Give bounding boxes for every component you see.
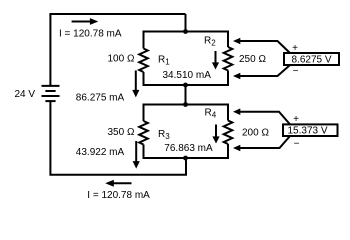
resistor R3 — [139, 121, 148, 144]
wire top rail and left vertical down to battery — [50, 14, 185, 86]
svg-text:100 Ω: 100 Ω — [108, 54, 135, 65]
wire bottom box right edge upper segment — [227, 104, 229, 121]
wire bottom box left edge lower segment — [143, 145, 145, 160]
voltmeter V1 box — [284, 53, 339, 65]
voltmeter lead V2 - (arrow to R4 bottom) — [233, 136, 290, 151]
voltmeter lead V1 + (arrow to R2 top) — [233, 38, 290, 53]
current arrow R2 branch (down) — [212, 51, 219, 70]
current arrow R1 branch (down) — [132, 71, 139, 98]
svg-text:76.863 mA: 76.863 mA — [164, 143, 213, 154]
current arrow R4 branch (down) — [212, 125, 219, 144]
node junction mid-upper — [183, 83, 188, 88]
svg-text:43.922 mA: 43.922 mA — [76, 147, 125, 158]
wire bottom box top edge — [144, 104, 229, 106]
voltmeter lead V2 + (arrow to R4 top) — [233, 108, 290, 124]
svg-text:200 Ω: 200 Ω — [242, 127, 269, 138]
svg-text:I = 120.78 mA: I = 120.78 mA — [59, 29, 122, 40]
wire bottom box right edge lower segment — [227, 144, 229, 159]
svg-text:−: − — [294, 138, 300, 149]
wire middle link between boxes — [185, 85, 187, 105]
resistor R2 — [224, 47, 233, 71]
node junction bottom — [183, 156, 188, 161]
svg-text:8.6275 V: 8.6275 V — [292, 55, 332, 66]
svg-text:R3: R3 — [158, 129, 170, 141]
wire bottom box bottom edge — [144, 157, 229, 159]
wire top box right edge lower segment — [227, 71, 229, 87]
svg-text:34.510 mA: 34.510 mA — [163, 70, 212, 81]
wire top box left edge lower segment — [143, 72, 145, 86]
voltmeter lead V1 - (arrow to R2 bottom) — [233, 65, 290, 79]
svg-text:I = 120.78 mA: I = 120.78 mA — [87, 190, 150, 201]
current arrow top (I total, right) — [72, 18, 99, 25]
svg-text:+: + — [293, 114, 299, 125]
resistor R4 — [224, 121, 233, 144]
node junction mid-lower — [183, 102, 188, 107]
svg-text:−: − — [293, 66, 299, 77]
svg-text:+: + — [292, 43, 298, 54]
svg-text:250 Ω: 250 Ω — [239, 54, 266, 65]
svg-text:15.373 V: 15.373 V — [288, 126, 328, 137]
current arrow R3 branch (down) — [133, 141, 140, 169]
wire top box bottom edge — [144, 84, 229, 86]
voltmeter V2 box — [283, 124, 338, 136]
battery B1 24V — [42, 86, 60, 101]
resistor R1 — [139, 49, 148, 73]
svg-text:R2: R2 — [204, 36, 216, 48]
wire bottom box left edge upper segment — [143, 104, 145, 122]
svg-text:24 V: 24 V — [15, 89, 36, 100]
current arrow bottom (I total, left) — [105, 180, 131, 187]
wire top box right edge upper segment — [227, 31, 229, 48]
svg-text:86.275 mA: 86.275 mA — [76, 92, 125, 103]
wire top box left edge upper segment — [143, 31, 145, 49]
svg-text:R1: R1 — [158, 55, 170, 67]
wire top drop from rail to top box — [185, 14, 187, 32]
svg-text:350 Ω: 350 Ω — [108, 127, 135, 138]
node junction top — [183, 29, 188, 34]
wire top box top edge — [144, 31, 229, 33]
svg-text:R4: R4 — [205, 107, 217, 119]
wire from battery bottom, down left side, along bottom rail, up to bottom box — [50, 101, 186, 175]
